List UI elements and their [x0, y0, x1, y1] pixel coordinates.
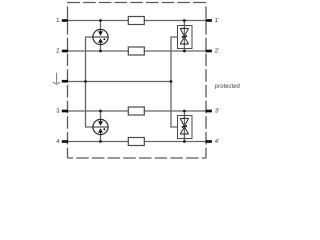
terminal 3 bar [62, 110, 68, 113]
wire diode modules center to ground bus [171, 37, 178, 127]
wire line 3 (terminal 3 to 3') [65, 110, 208, 112]
label terminal 1' [215, 18, 219, 22]
TVS diode D1 center zener bar [182, 35, 186, 38]
GDT F2 lower arc electrode arrow [98, 128, 103, 133]
terminal 4 bar [62, 140, 68, 143]
junction node ground bus / GDT centers [84, 80, 87, 83]
GDT F1 lower arc electrode arrow [98, 38, 103, 43]
label terminal 3 [56, 108, 59, 112]
resistor R4 (line 4) [128, 138, 144, 146]
TVS diode D2 bottom cathode bar [180, 133, 188, 135]
GDT F2 bottom electrode lead [100, 133, 102, 135]
GDT F1 top electrode lead [100, 29, 102, 32]
wire GDT F1 vertical electrode (line1 to line2) [100, 21, 102, 52]
junction node line2/TVS1 [183, 50, 186, 53]
wire TVS module vertical (line1 to line2) [183, 21, 185, 52]
terminal 4' bar [206, 140, 212, 143]
TVS suppressor diode module box (pair 1/2) [178, 26, 193, 49]
GDT F2 gas-filled indicator dot [103, 128, 105, 130]
TVS suppressor diode module box (pair 3/4) [178, 116, 193, 139]
GDT F1 upper arc electrode arrow [98, 31, 103, 36]
junction node line3/TVS2 [183, 110, 186, 113]
wire GDT center electrodes to ground bus [86, 37, 93, 127]
wire ground bus [65, 81, 171, 83]
TVS diode D2 lower triangle [180, 127, 188, 134]
label protected side [215, 83, 239, 89]
wire line 1 (terminal 1 to 1') [65, 20, 208, 22]
junction node ground bus / TVS centers [170, 80, 173, 83]
junction node line1/TVS1 [183, 19, 186, 22]
terminal 2 bar [62, 50, 68, 53]
TVS diode D1 bottom cathode bar [180, 43, 188, 45]
label terminal 1 [57, 18, 60, 22]
TVS diode D2 upper triangle [180, 118, 188, 126]
terminal 1' bar [206, 19, 212, 22]
resistor R2 (line 2) [128, 47, 144, 55]
TVS diode D1 top cathode bar [180, 27, 188, 29]
wire line 2 (terminal 2 to 2') [65, 50, 208, 52]
GDT F1 bottom electrode lead [100, 43, 102, 45]
terminal 1 bar [62, 19, 68, 22]
label terminal 4 [56, 139, 59, 143]
label terminal 4' [215, 139, 219, 143]
dashed enclosure border [68, 2, 207, 4]
GDT F2 upper arc electrode arrow [98, 121, 103, 126]
label terminal 2 [56, 48, 59, 52]
label terminal 3' [215, 108, 219, 112]
GDT F2 center electrode line [93, 126, 108, 128]
GDT F2 top electrode lead [100, 119, 102, 122]
label terminal 2' [215, 48, 219, 52]
terminal 3' bar [206, 110, 212, 113]
gas discharge tube F2 circle [93, 119, 108, 134]
GDT F1 gas-filled indicator dot [103, 38, 105, 40]
wire line 4 (terminal 4 to 4') [65, 141, 208, 143]
GDT F1 center electrode line [93, 36, 108, 38]
TVS diode D1 upper triangle [180, 28, 188, 36]
TVS diode D1 lower triangle [180, 37, 188, 44]
junction node line3/GDT2 [99, 110, 102, 113]
terminal ground bar [62, 80, 68, 83]
TVS diode D2 top cathode bar [180, 117, 188, 119]
junction node line2/GDT1 [99, 50, 102, 53]
terminal 2' bar [206, 50, 212, 53]
gas discharge tube F1 circle [93, 29, 108, 44]
wire TVS module vertical (line3 to line4) [183, 111, 185, 142]
ground arrow symbol [56, 73, 58, 83]
junction node line1/GDT1 [99, 19, 102, 22]
resistor R1 (line 1) [128, 17, 144, 25]
junction node line4/GDT2 [99, 140, 102, 143]
resistor R3 (line 3) [128, 107, 144, 115]
wire GDT F2 vertical electrode (line3 to line4) [100, 111, 102, 142]
junction node line4/TVS2 [183, 140, 186, 143]
TVS diode D2 center zener bar [182, 125, 186, 128]
